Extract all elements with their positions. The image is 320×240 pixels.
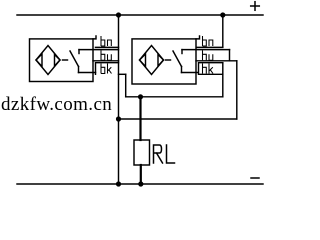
wire 0V bottom rail xyxy=(17,183,263,185)
node junction dot 0V left xyxy=(116,181,121,186)
sensor B2 terminal hk box xyxy=(199,63,223,75)
sensor B2 diamond right triangle xyxy=(158,55,164,67)
wire +V top rail xyxy=(17,14,263,16)
sensor B1 top edge extension stub xyxy=(93,36,96,39)
node junction dot +V left xyxy=(116,12,121,17)
node junction dot bu bus xyxy=(116,116,121,121)
sensor B1 actuator wire xyxy=(63,59,68,61)
sensor B1 switch bottom wire xyxy=(79,72,96,74)
label bn sensor B1 xyxy=(101,36,111,46)
sensor B1 enclosure xyxy=(30,39,94,82)
wire bu bus horizontal xyxy=(119,118,237,120)
sensor B2 actuator wire xyxy=(166,59,171,61)
resistor RL box xyxy=(134,140,150,165)
sensor B2 switch bottom stub xyxy=(181,67,183,73)
sensor B2 top edge extension stub xyxy=(196,36,200,39)
sensor B1 terminal bk box xyxy=(96,63,119,75)
sensor B2 terminal hu right edge xyxy=(229,50,231,61)
sensor B1 switch blade xyxy=(70,51,79,67)
wire B1 bk extension xyxy=(119,73,126,75)
sensor B1 switch top wire xyxy=(79,49,119,51)
sensor B1 detector diamond xyxy=(36,46,60,75)
sensor B2 switch top stub xyxy=(181,50,183,54)
wire B2 bk riser xyxy=(222,63,224,97)
sensor B1 switch bottom stub xyxy=(78,67,80,73)
node junction dot bk bus xyxy=(138,94,143,99)
node junction dot 0V RL xyxy=(138,181,143,186)
sensor B1 diamond right triangle xyxy=(55,55,61,67)
sensor B2 switch top wire xyxy=(182,49,230,51)
sensor B2 terminal hu line xyxy=(196,60,237,62)
sensor B2 enclosure xyxy=(132,39,196,84)
wire RL bottom lead xyxy=(140,165,142,184)
sensor B2 terminal bn line xyxy=(197,46,223,48)
node junction dot +V right xyxy=(220,12,225,17)
label + supply polarity xyxy=(251,5,260,7)
wire left bus vertical xyxy=(118,15,120,184)
label hu sensor B2 xyxy=(203,50,213,60)
sensor B1 switch top stub xyxy=(78,50,80,54)
label RL load resistor letter R xyxy=(154,145,163,163)
label bn sensor B2 xyxy=(203,36,213,46)
wire bk bus horizontal xyxy=(126,96,223,98)
svg-text:dzkfw.com.cn: dzkfw.com.cn xyxy=(1,94,112,115)
sensor B1 terminal bn line xyxy=(96,46,119,48)
sensor B2 switch blade xyxy=(173,51,182,67)
sensor B2 detector diamond xyxy=(140,46,164,75)
wire B1 bk drop xyxy=(125,74,127,97)
sensor B2 switch bottom wire xyxy=(182,72,199,74)
label bk sensor B1 xyxy=(101,64,112,74)
label bu sensor B1 xyxy=(101,50,111,60)
label - supply polarity xyxy=(251,177,259,179)
wire B2 bu drop xyxy=(236,61,238,119)
label RL load resistor letter L xyxy=(167,145,175,163)
wire B2 bn drop from +V xyxy=(222,15,224,47)
sensor B2 diamond left triangle xyxy=(140,54,146,67)
sensor B1 diamond left triangle xyxy=(36,54,42,67)
wire RL top lead xyxy=(139,97,141,140)
label hk sensor B2 xyxy=(203,64,214,74)
sensor B1 terminal bu line xyxy=(93,60,119,62)
